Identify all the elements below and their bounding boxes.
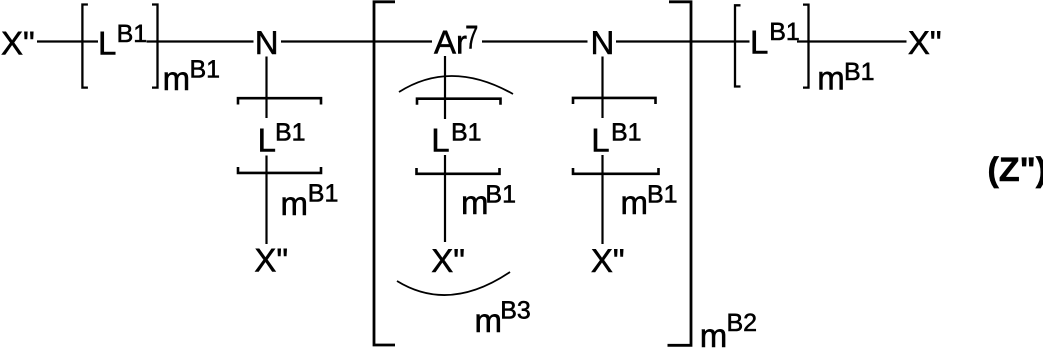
svg-text:B1: B1 [190, 56, 221, 84]
atom X" (right terminus) [908, 24, 942, 61]
svg-text:m: m [281, 185, 309, 222]
repeat count m^B2 [700, 309, 757, 348]
aryl group Ar7 [434, 18, 478, 60]
svg-text:N: N [591, 24, 615, 61]
closing bracket of outer-left [L^B1] [152, 5, 158, 88]
terminal X" (chain 3) [591, 242, 625, 279]
big right bracket of repeating unit [668, 2, 692, 346]
svg-text:B1: B1 [308, 180, 339, 208]
svg-text:(Z"): (Z") [988, 151, 1043, 189]
wire bond Ar7-N [482, 40, 588, 42]
svg-text:7: 7 [465, 18, 478, 55]
atom N (first amine) [255, 24, 279, 61]
svg-text:m: m [163, 60, 191, 97]
repeat count m^B3 [475, 297, 531, 340]
wire vertical bond N down (chain 3) [601, 57, 603, 119]
opening bracket of outer-right [L^B1] [735, 5, 741, 86]
repeat bracket bottom (chain 2) [417, 168, 500, 174]
repeat bracket top (chain 1) [238, 98, 321, 104]
repeat count m^B1 (chain 2) [461, 180, 516, 221]
svg-text:X": X" [254, 241, 288, 278]
formula label (Z") [988, 151, 1043, 189]
svg-text:B3: B3 [500, 297, 531, 325]
arc lower (substituent repeat marker) [397, 272, 510, 295]
svg-text:B1: B1 [275, 118, 306, 146]
svg-text:X": X" [591, 242, 625, 279]
wire bond N-[Ar7 [281, 40, 432, 42]
svg-text:L: L [258, 122, 276, 159]
wire vertical bond (chain 2) [444, 155, 446, 242]
linker L^B1 (chain 3) [591, 118, 641, 158]
linker L^B1 (outer-right) [750, 18, 800, 61]
repeat count m^B1 (chain 1) [281, 180, 339, 223]
opening bracket of outer-left [L^B1] [82, 5, 88, 88]
svg-text:N: N [255, 24, 279, 61]
svg-text:L: L [98, 25, 116, 62]
svg-text:m: m [700, 317, 728, 348]
repeat bracket top (chain 2) [417, 99, 501, 105]
svg-text:m: m [621, 184, 649, 221]
terminal X" (chain 2) [431, 242, 465, 279]
wire bond N-] [616, 40, 750, 42]
linker L^B1 (chain 2) [431, 118, 481, 158]
linker L^B1 (chain 1) [258, 118, 306, 158]
repeat bracket bottom (chain 3) [573, 168, 659, 174]
wire vertical bond N down [265, 57, 267, 119]
repeat count m^B1 (outer-left) [163, 56, 220, 97]
repeat bracket bottom (chain 1) [238, 167, 321, 173]
svg-text:B1: B1 [117, 20, 148, 48]
svg-text:m: m [461, 184, 489, 221]
svg-text:X": X" [908, 24, 942, 61]
svg-text:B1: B1 [769, 18, 800, 46]
svg-text:B1: B1 [451, 118, 482, 146]
terminal X" (chain 1) [254, 241, 288, 278]
svg-text:Ar: Ar [434, 24, 467, 61]
atom X" (left terminus) [1, 25, 35, 62]
wire bond L^B1-N [147, 40, 254, 42]
svg-text:B1: B1 [647, 180, 678, 208]
wire vertical bond L^B1 to X" (chain 1) [265, 156, 267, 245]
repeat count m^B1 (outer-right) [817, 58, 874, 97]
svg-text:L: L [591, 122, 609, 159]
atom N (second amine) [591, 24, 615, 61]
wire vertical bond Ar7 down [444, 56, 446, 119]
arc upper (substituent repeat marker) [399, 76, 513, 94]
svg-text:X": X" [1, 25, 35, 62]
repeat bracket top (chain 3) [573, 98, 656, 104]
wire vertical bond (chain 3) [601, 155, 603, 244]
svg-text:B1: B1 [611, 118, 642, 146]
repeat count m^B1 (chain 3) [621, 180, 678, 221]
closing bracket of outer-right [L^B1] [803, 5, 809, 88]
svg-text:B1: B1 [485, 180, 516, 208]
svg-text:B1: B1 [844, 58, 875, 86]
svg-text:B2: B2 [727, 309, 758, 337]
svg-text:m: m [475, 302, 503, 339]
wire bond X"-[L [37, 40, 98, 42]
svg-text:m: m [817, 60, 845, 97]
wire bond ]-X" [797, 40, 907, 42]
svg-text:L: L [431, 122, 449, 159]
svg-text:X": X" [431, 242, 465, 279]
big left bracket of repeating unit [374, 2, 395, 345]
linker L^B1 (outer-left) [98, 20, 147, 62]
svg-text:L: L [750, 24, 768, 61]
